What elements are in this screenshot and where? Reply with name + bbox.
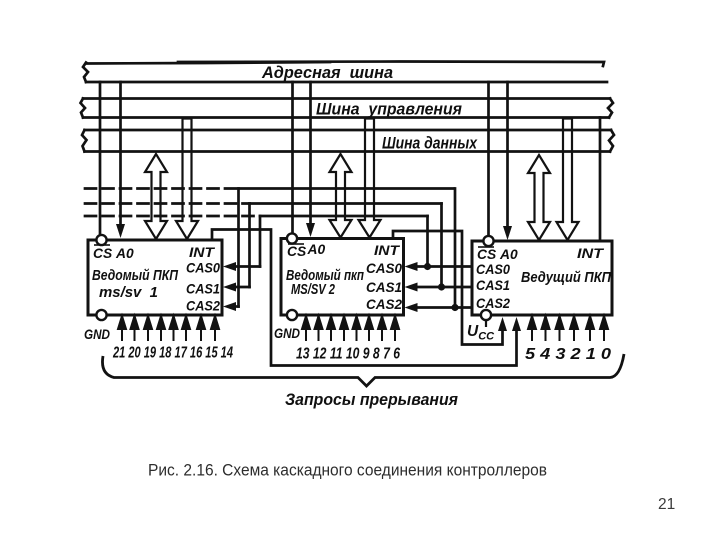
svg-text:INT: INT	[374, 243, 401, 258]
wire: address bus to U2 CS	[291, 82, 294, 234]
wire: stub into U1 CAS2	[234, 305, 239, 308]
svg-text:Рис. 2.16. Схема каскадного со: Рис. 2.16. Схема каскадного соединения к…	[148, 462, 547, 480]
wire: U3 INT to control bus	[599, 118, 602, 242]
brace: interrupt requests	[102, 354, 624, 386]
arrowhead: A0 into U2	[306, 223, 315, 237]
control-bus hollow arrow to U2	[359, 119, 381, 238]
svg-text:A0: A0	[307, 242, 326, 257]
block U1: slave PIC 1	[88, 240, 222, 315]
svg-text:21 20 19 18 17 16 15 14: 21 20 19 18 17 16 15 14	[112, 345, 233, 362]
svg-text:CAS1: CAS1	[476, 278, 510, 293]
wire: U2 INT to U3 cascade input	[393, 231, 503, 345]
wire: run CAS0 down to U1 CAS0	[259, 216, 262, 267]
U2 IRQ input arrows	[302, 316, 399, 341]
svg-text:CAS0: CAS0	[476, 262, 510, 277]
svg-text:CS: CS	[93, 246, 113, 261]
svg-text:A0: A0	[499, 247, 518, 262]
data-bus hollow double arrow to U1	[145, 154, 167, 239]
wire: U1 INT to U3 cascade input	[212, 230, 517, 366]
wire: run CAS1 down to U1 CAS1	[248, 204, 251, 288]
svg-text:Шина управления: Шина управления	[316, 101, 462, 119]
svg-text:5 4 3 2 1 0: 5 4 3 2 1 0	[525, 346, 611, 363]
control-bus hollow arrow to U3	[557, 119, 579, 241]
svg-text:INT: INT	[189, 245, 216, 260]
svg-text:CAS1: CAS1	[186, 282, 220, 297]
svg-text:CAS2: CAS2	[476, 296, 510, 311]
svg-text:CS: CS	[477, 247, 497, 262]
svg-text:CS: CS	[287, 244, 307, 259]
svg-text:13 12 11 10 9 8 7 6: 13 12 11 10 9 8 7 6	[296, 346, 400, 363]
control bus band	[83, 97, 610, 100]
svg-text:CAS0: CAS0	[366, 261, 402, 276]
wire: U2 CAS1 row to U3 CAS1	[416, 286, 472, 289]
svg-text:Ведомый ПКП: Ведомый ПКП	[92, 268, 178, 284]
cascade run CAS1 (dashed extension)	[85, 202, 250, 205]
wire: run CAS2 down to junction	[454, 189, 457, 308]
block U2: slave PIC 2	[281, 239, 404, 316]
arrowhead: A0 into U1	[116, 224, 125, 238]
svg-text:GND: GND	[274, 325, 300, 341]
stub under Ucc pin	[485, 320, 487, 327]
svg-text:Шина данных: Шина данных	[382, 135, 478, 153]
arrowhead: into U1 CAS0	[223, 262, 236, 271]
svg-text:21: 21	[658, 496, 675, 513]
wire: stub into U1 CAS1	[234, 286, 250, 289]
arrowhead: into U2 CAS2	[405, 303, 418, 312]
wire: address bus to U3 A0	[506, 82, 509, 227]
svg-text:A0: A0	[115, 246, 134, 261]
junction dot CAS1	[438, 283, 445, 290]
block U3: master PIC	[472, 241, 612, 315]
pin circle: U3 Ucc	[481, 310, 491, 320]
arrowhead: into U1 CAS2	[223, 302, 236, 311]
pin circle: U2 CS	[287, 233, 297, 243]
svg-text:CAS0: CAS0	[186, 261, 220, 276]
arrowhead: into U2 CAS0	[405, 262, 418, 271]
data bus band	[85, 129, 612, 132]
svg-text:MS/SV 2: MS/SV 2	[291, 282, 335, 298]
svg-text:CAS2: CAS2	[186, 299, 220, 314]
pin circle: U2 GND	[287, 310, 297, 320]
wire: U2 CAS0 row to U3 CAS0	[416, 265, 472, 268]
arrowhead: A0 into U3	[503, 226, 512, 240]
data-bus hollow double arrow to U3	[528, 155, 550, 240]
pin circle: U1 GND	[96, 310, 106, 320]
U1 IRQ input arrows	[118, 316, 219, 341]
cascade run CAS1 (solid)	[250, 202, 442, 205]
svg-text:CAS1: CAS1	[366, 280, 402, 295]
svg-text:GND: GND	[84, 326, 110, 342]
svg-text:Адресная шина: Адресная шина	[261, 64, 393, 82]
junction dot CAS0	[424, 263, 431, 270]
wire: run CAS2 down to U1 CAS2	[237, 189, 240, 307]
pin circle: U1 CS	[96, 235, 106, 245]
wire: address bus to U1 CS	[99, 82, 102, 235]
cascade run CAS2 (solid)	[239, 187, 454, 190]
svg-text:CAS2: CAS2	[366, 297, 402, 312]
cascade run CAS0 (dashed extension)	[85, 215, 260, 218]
svg-text:Запросы прерывания: Запросы прерывания	[285, 390, 458, 409]
cascade run CAS0 (solid)	[260, 215, 428, 218]
junction dot CAS2	[451, 304, 458, 311]
wire: stub into U1 CAS0	[234, 265, 260, 268]
wire: address bus to U3 CS	[487, 82, 490, 236]
wire: address bus to U2 A0	[309, 82, 312, 225]
cascade run CAS2 (dashed extension)	[85, 187, 239, 190]
wire: U2 CAS2 row to U3 CAS2	[416, 306, 472, 309]
address bus band	[86, 62, 330, 64]
svg-text:Ведущий ПКП: Ведущий ПКП	[521, 270, 611, 286]
pin circle: U3 CS	[483, 236, 493, 246]
arrowhead: into U1 CAS1	[223, 283, 236, 292]
arrowhead: U2 INT into U3 IRQ	[498, 317, 507, 331]
wire: run CAS0 down to junction	[426, 216, 429, 267]
arrowhead: into U2 CAS1	[405, 283, 418, 292]
U3 IRQ input arrows	[528, 316, 608, 341]
wire: run CAS1 down to junction	[440, 204, 443, 288]
control-bus hollow arrow to U1	[176, 119, 198, 240]
data-bus hollow double arrow to U2	[330, 154, 352, 238]
svg-text:INT: INT	[577, 246, 605, 261]
arrowhead: U1 INT into U3 IRQ	[512, 317, 521, 331]
wire: address bus to U1 A0	[119, 82, 122, 226]
svg-text:ms/sv 1: ms/sv 1	[99, 285, 158, 301]
